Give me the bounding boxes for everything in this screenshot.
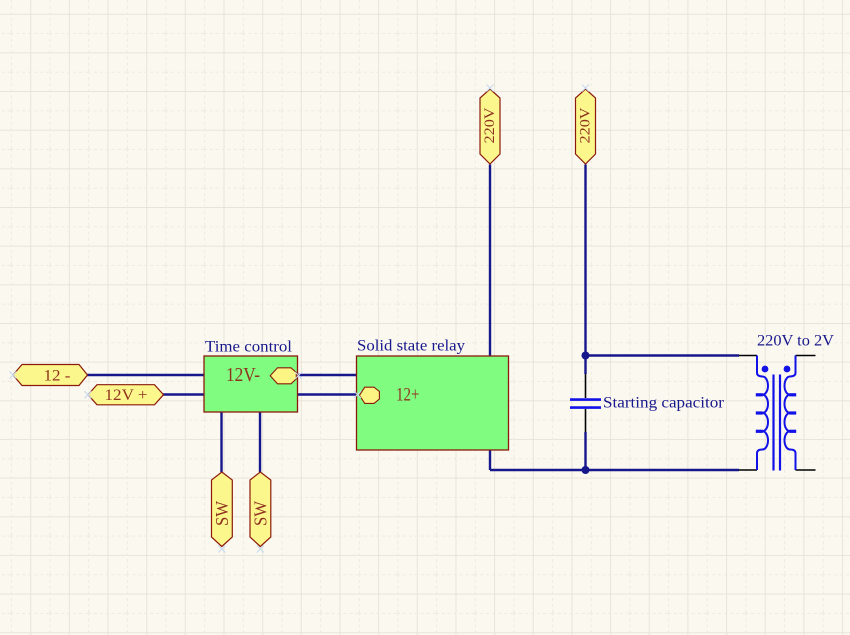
svg-text:12V-: 12V- (226, 364, 260, 386)
svg-text:220V: 220V (482, 107, 498, 143)
capacitor C1 top pin lead (585, 374, 587, 398)
transformer TR1 secondary bottom pin (796, 469, 816, 471)
wire Time control to Solid state relay (upper) (298, 374, 357, 376)
node marker Solid state relay pin (354, 391, 361, 398)
transformer TR1 secondary phase dot (784, 366, 791, 373)
transformer TR1 primary winding cusp nubs (756, 393, 763, 433)
transformer TR1 secondary winding cusp nubs (789, 393, 796, 433)
junction node A (582, 352, 590, 360)
transformer TR1 secondary winding (784, 356, 795, 471)
origin marker terminal 12V+ (85, 391, 92, 398)
wire 12V+ terminal to Time control left edge (163, 393, 204, 395)
transformer TR1 core (774, 375, 781, 471)
block Time control body (204, 356, 298, 412)
svg-text:SW: SW (212, 501, 232, 526)
block Solid state relay pin hexagon (359, 387, 379, 403)
capacitor C1 plates (570, 400, 601, 408)
transformer TR1 primary bottom pin (739, 469, 757, 471)
wire Solid state relay output down (489, 450, 491, 470)
svg-text:12 -: 12 - (44, 367, 71, 384)
terminal 12 - (13, 365, 88, 386)
wire 220V terminal 1 to Solid state relay top (489, 165, 491, 358)
transformer TR1 primary winding (757, 356, 768, 471)
terminal 220V no.2 (576, 89, 596, 164)
wire node A down to capacitor (584, 354, 586, 374)
junction node B (582, 466, 590, 474)
svg-text:220V: 220V (578, 107, 594, 143)
origin marker terminal 220V no.1 (487, 85, 494, 92)
transformer TR1 primary top pin (739, 355, 757, 357)
transformer TR1 primary phase dot (762, 366, 769, 373)
svg-text:12V +: 12V + (105, 387, 148, 404)
origin marker terminal 220V no.2 (582, 85, 589, 92)
wire node A to transformer primary top (586, 354, 740, 356)
capacitor C1 bottom pin lead (585, 409, 587, 432)
svg-text:Solid state relay: Solid state relay (357, 338, 465, 355)
origin marker terminal SW1 (218, 546, 225, 553)
node marker Time control pin (295, 372, 302, 379)
wire 12- terminal to Time control left edge (87, 374, 204, 376)
svg-text:220V to 2V: 220V to 2V (757, 333, 834, 350)
terminal SW1 (212, 472, 233, 547)
svg-text:12+: 12+ (396, 385, 420, 406)
wire bottom rail to transformer primary bottom (490, 469, 739, 471)
terminal 220V no.1 (480, 89, 500, 164)
terminal SW2 (250, 472, 271, 547)
wire capacitor bottom to node B (584, 432, 586, 471)
block Solid state relay body (357, 356, 509, 450)
wire Time control to Solid state relay (lower) (298, 393, 357, 395)
transformer TR1 secondary top pin (796, 355, 816, 357)
wire 220V terminal 2 down to node A (584, 165, 586, 356)
svg-text:Starting capacitor: Starting capacitor (603, 395, 725, 412)
wire Time control pin to SW1 terminal (220, 412, 222, 472)
svg-text:Time control: Time control (205, 339, 293, 356)
wire Time control pin to SW2 terminal (259, 412, 261, 472)
origin marker terminal SW2 (257, 546, 264, 553)
svg-text:SW: SW (250, 501, 270, 526)
block Time control pin hexagon (270, 368, 296, 384)
origin marker terminal 12- (10, 372, 17, 379)
terminal 12V + (88, 385, 164, 405)
